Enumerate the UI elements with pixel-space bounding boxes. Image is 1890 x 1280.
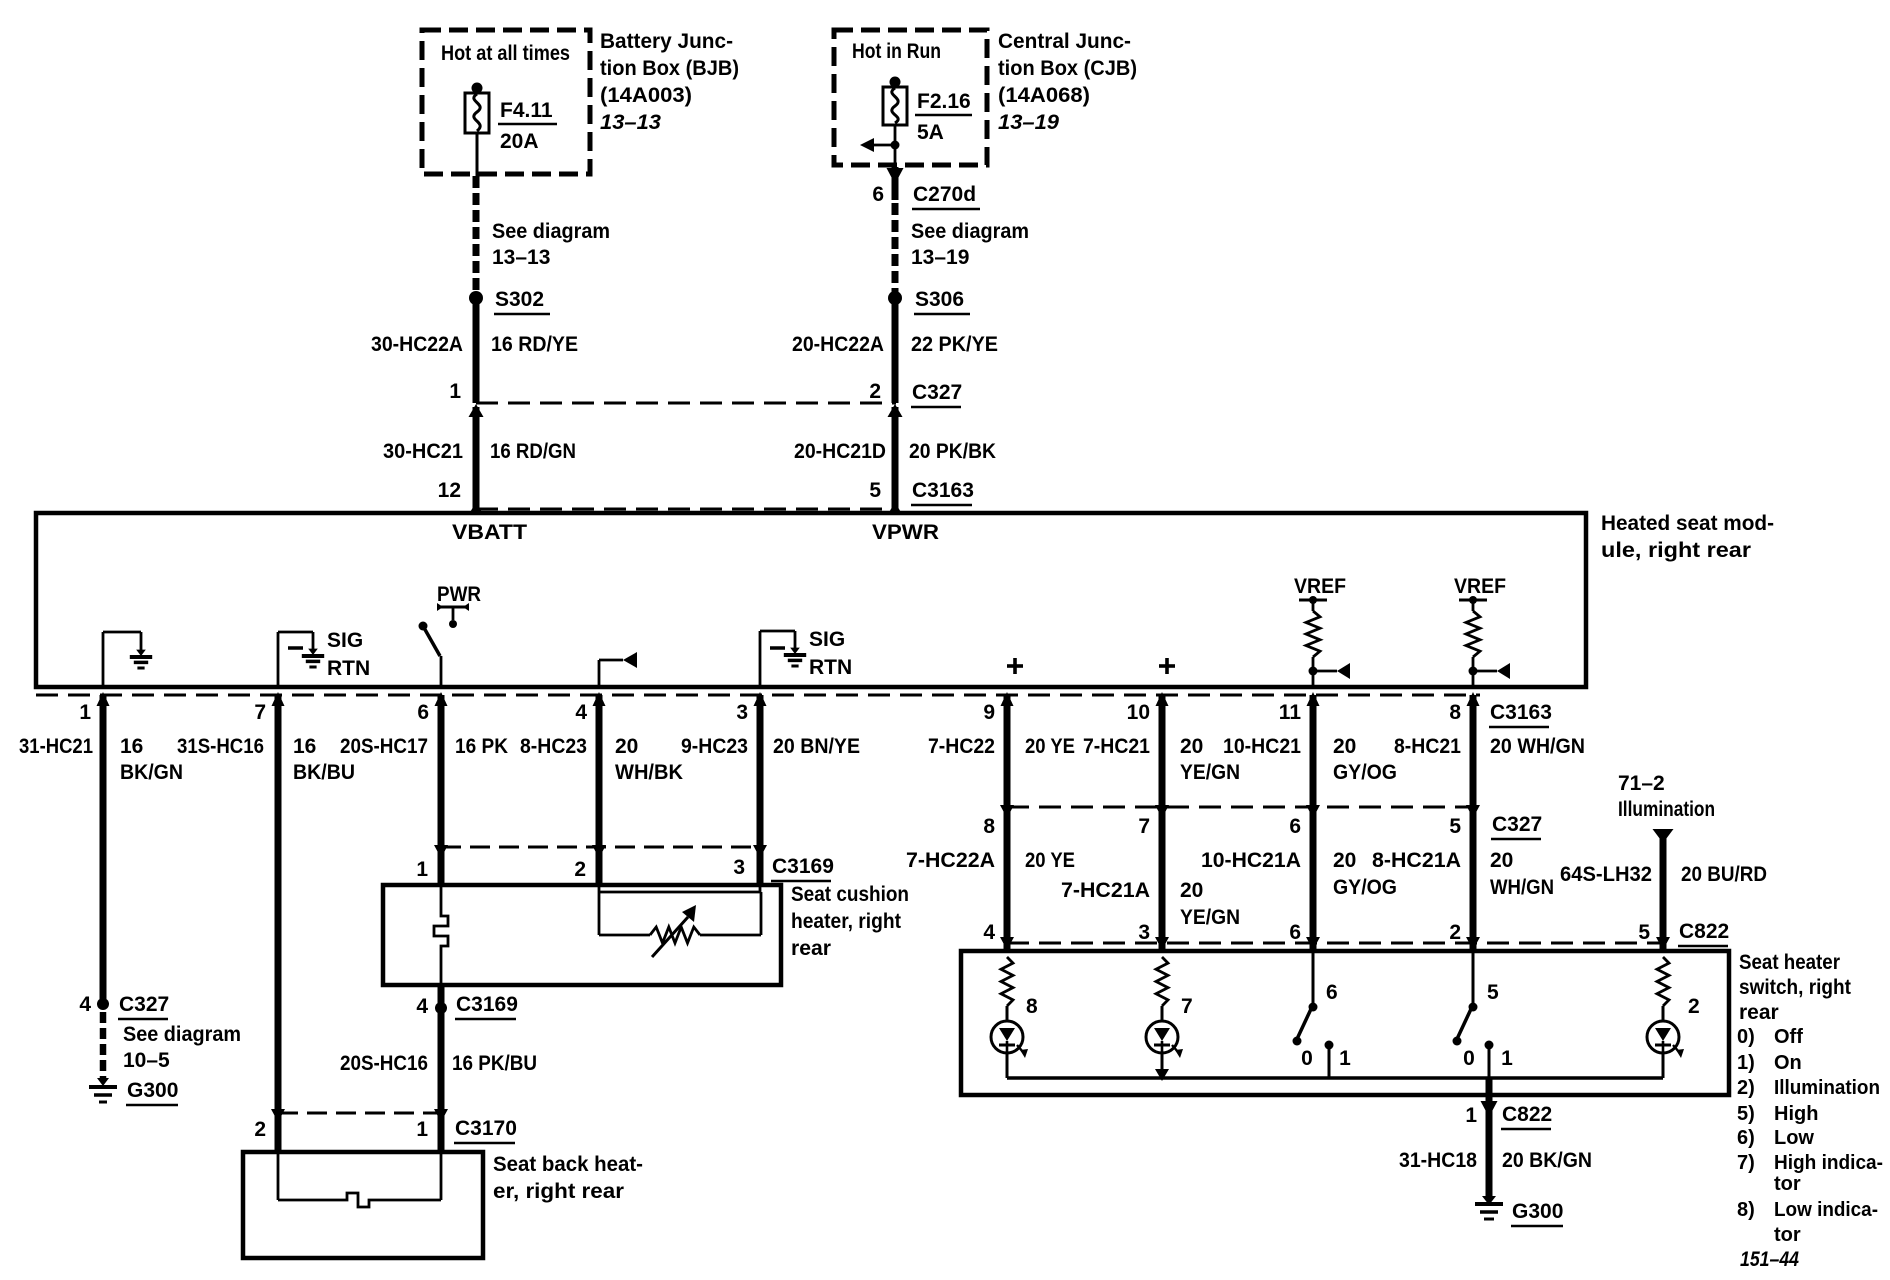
svg-text:8-HC23: 8-HC23 <box>520 735 587 758</box>
svg-text:Illumination: Illumination <box>1774 1077 1880 1099</box>
svg-text:8: 8 <box>1449 701 1461 724</box>
svg-text:tion Box (CJB): tion Box (CJB) <box>998 57 1137 80</box>
svg-text:16 PK: 16 PK <box>455 735 508 758</box>
svg-text:RTN: RTN <box>327 657 370 680</box>
svg-text:5A: 5A <box>917 121 944 144</box>
svg-text:WH/GN: WH/GN <box>1490 876 1554 899</box>
svg-text:0: 0 <box>1301 1047 1313 1070</box>
svg-text:1): 1) <box>1737 1052 1755 1074</box>
svg-text:5: 5 <box>1487 981 1499 1004</box>
svg-text:VREF: VREF <box>1294 575 1346 598</box>
svg-text:3: 3 <box>1138 921 1150 944</box>
svg-text:5: 5 <box>1449 815 1461 838</box>
svg-text:10-HC21A: 10-HC21A <box>1201 849 1301 872</box>
svg-text:7-HC22A: 7-HC22A <box>906 849 995 872</box>
svg-text:rear: rear <box>1739 1001 1779 1024</box>
svg-text:WH/BK: WH/BK <box>615 761 683 784</box>
svg-text:SIG: SIG <box>809 628 845 651</box>
svg-text:(14A003): (14A003) <box>600 84 692 107</box>
svg-text:16 RD/YE: 16 RD/YE <box>491 333 578 356</box>
svg-text:8: 8 <box>1026 995 1038 1018</box>
svg-text:11: 11 <box>1279 701 1302 724</box>
svg-text:20 WH/GN: 20 WH/GN <box>1490 735 1585 758</box>
svg-text:RTN: RTN <box>809 656 852 679</box>
svg-text:20 BK/GN: 20 BK/GN <box>1502 1149 1592 1172</box>
svg-text:heater, right: heater, right <box>791 910 901 933</box>
svg-text:6: 6 <box>1289 921 1301 944</box>
svg-text:16: 16 <box>293 735 316 758</box>
svg-text:20-HC21D: 20-HC21D <box>794 440 886 463</box>
svg-text:20 PK/BK: 20 PK/BK <box>909 440 996 463</box>
svg-text:VPWR: VPWR <box>872 521 939 544</box>
svg-text:10-HC21: 10-HC21 <box>1223 735 1301 758</box>
svg-text:13–19: 13–19 <box>911 246 969 269</box>
svg-text:High indica-: High indica- <box>1774 1152 1883 1174</box>
svg-text:22 PK/YE: 22 PK/YE <box>911 333 998 356</box>
svg-text:8-HC21A: 8-HC21A <box>1372 849 1461 872</box>
svg-text:Hot in Run: Hot in Run <box>852 40 941 63</box>
svg-text:2): 2) <box>1737 1077 1755 1099</box>
svg-text:2: 2 <box>1449 921 1461 944</box>
svg-text:F2.16: F2.16 <box>917 90 971 113</box>
svg-text:30-HC21: 30-HC21 <box>383 440 463 463</box>
svg-text:BK/GN: BK/GN <box>120 761 183 784</box>
svg-text:13–13: 13–13 <box>492 246 550 269</box>
svg-text:3: 3 <box>733 856 745 879</box>
svg-text:8: 8 <box>983 815 995 838</box>
svg-text:G300: G300 <box>127 1079 178 1102</box>
svg-text:9-HC23: 9-HC23 <box>681 735 748 758</box>
svg-text:8-HC21: 8-HC21 <box>1394 735 1461 758</box>
svg-text:2: 2 <box>254 1118 266 1141</box>
svg-text:1: 1 <box>1339 1047 1351 1070</box>
svg-text:13–19: 13–19 <box>998 111 1059 134</box>
svg-text:7-HC21A: 7-HC21A <box>1061 879 1150 902</box>
svg-text:6: 6 <box>417 701 429 724</box>
svg-text:6: 6 <box>1326 981 1338 1004</box>
svg-text:Low indica-: Low indica- <box>1774 1199 1878 1221</box>
svg-text:4: 4 <box>983 921 995 944</box>
svg-text:6): 6) <box>1737 1127 1755 1149</box>
svg-text:8): 8) <box>1737 1199 1755 1221</box>
svg-text:See diagram: See diagram <box>492 220 610 243</box>
svg-text:See diagram: See diagram <box>123 1023 241 1046</box>
svg-text:20 BN/YE: 20 BN/YE <box>773 735 860 758</box>
svg-text:(14A068): (14A068) <box>998 84 1090 107</box>
svg-text:13–13: 13–13 <box>600 111 661 134</box>
svg-text:20S-HC17: 20S-HC17 <box>340 735 428 758</box>
svg-text:0: 0 <box>1463 1047 1475 1070</box>
svg-text:31-HC18: 31-HC18 <box>1399 1149 1477 1172</box>
svg-text:1: 1 <box>416 1118 428 1141</box>
svg-text:20: 20 <box>1490 849 1513 872</box>
svg-text:1: 1 <box>79 701 91 724</box>
svg-text:Seat back heat-: Seat back heat- <box>493 1153 643 1176</box>
svg-text:C822: C822 <box>1502 1103 1552 1126</box>
svg-text:switch, right: switch, right <box>1739 976 1851 999</box>
svg-text:7: 7 <box>1138 815 1150 838</box>
svg-text:6: 6 <box>872 183 884 206</box>
svg-text:F4.11: F4.11 <box>500 99 553 122</box>
svg-text:20: 20 <box>1333 849 1356 872</box>
svg-text:4: 4 <box>79 993 91 1016</box>
svg-text:Low: Low <box>1774 1127 1814 1149</box>
svg-text:C3163: C3163 <box>1490 701 1552 724</box>
svg-text:20A: 20A <box>500 130 539 153</box>
svg-text:VREF: VREF <box>1454 575 1506 598</box>
svg-text:4: 4 <box>416 995 428 1018</box>
svg-text:4: 4 <box>575 701 587 724</box>
svg-text:BK/BU: BK/BU <box>293 761 355 784</box>
svg-text:See diagram: See diagram <box>911 220 1029 243</box>
svg-text:On: On <box>1774 1052 1802 1074</box>
svg-text:7-HC22: 7-HC22 <box>928 735 995 758</box>
svg-text:C3169: C3169 <box>772 855 834 878</box>
svg-text:71–2: 71–2 <box>1618 772 1665 795</box>
svg-text:7: 7 <box>254 701 266 724</box>
svg-text:10–5: 10–5 <box>123 1049 170 1072</box>
svg-text:Central Junc-: Central Junc- <box>998 30 1131 53</box>
svg-text:7): 7) <box>1737 1152 1755 1174</box>
svg-text:rear: rear <box>791 937 831 960</box>
svg-text:1: 1 <box>416 858 428 881</box>
svg-text:C822: C822 <box>1679 920 1729 943</box>
svg-text:C3169: C3169 <box>456 993 518 1016</box>
svg-text:PWR: PWR <box>437 583 481 606</box>
svg-text:YE/GN: YE/GN <box>1180 761 1240 784</box>
svg-text:20 BU/RD: 20 BU/RD <box>1681 863 1767 886</box>
svg-text:31-HC21: 31-HC21 <box>19 735 93 758</box>
svg-text:7-HC21: 7-HC21 <box>1083 735 1150 758</box>
svg-text:2: 2 <box>574 858 586 881</box>
svg-text:6: 6 <box>1289 815 1301 838</box>
svg-text:S302: S302 <box>495 288 544 311</box>
svg-text:tor: tor <box>1774 1224 1801 1246</box>
svg-text:5): 5) <box>1737 1103 1755 1125</box>
svg-text:Seat heater: Seat heater <box>1739 951 1840 974</box>
svg-text:C327: C327 <box>119 993 169 1016</box>
svg-text:S306: S306 <box>915 288 964 311</box>
svg-text:Seat cushion: Seat cushion <box>791 883 909 906</box>
svg-text:31S-HC16: 31S-HC16 <box>177 735 264 758</box>
svg-text:64S-LH32: 64S-LH32 <box>1560 863 1652 886</box>
svg-text:2: 2 <box>869 380 881 403</box>
svg-text:20-HC22A: 20-HC22A <box>792 333 884 356</box>
svg-text:20: 20 <box>1180 735 1203 758</box>
svg-text:16 RD/GN: 16 RD/GN <box>490 440 576 463</box>
svg-text:20 YE: 20 YE <box>1025 849 1075 872</box>
svg-text:5: 5 <box>1638 921 1650 944</box>
svg-text:20: 20 <box>615 735 638 758</box>
svg-text:12: 12 <box>438 479 461 502</box>
svg-text:GY/OG: GY/OG <box>1333 876 1397 899</box>
svg-text:High: High <box>1774 1103 1818 1125</box>
svg-text:20: 20 <box>1333 735 1356 758</box>
svg-text:9: 9 <box>983 701 995 724</box>
svg-text:10: 10 <box>1127 701 1150 724</box>
svg-text:20 YE: 20 YE <box>1025 735 1075 758</box>
svg-text:C327: C327 <box>1492 813 1542 836</box>
svg-text:0): 0) <box>1737 1026 1755 1048</box>
svg-text:C327: C327 <box>912 381 962 404</box>
svg-text:16 PK/BU: 16 PK/BU <box>452 1052 537 1075</box>
svg-text:GY/OG: GY/OG <box>1333 761 1397 784</box>
svg-text:VBATT: VBATT <box>452 521 527 544</box>
svg-text:Battery Junc-: Battery Junc- <box>600 30 733 53</box>
svg-text:7: 7 <box>1181 995 1193 1018</box>
svg-text:5: 5 <box>869 479 881 502</box>
svg-text:1: 1 <box>1465 1104 1477 1127</box>
svg-text:SIG: SIG <box>327 629 363 652</box>
svg-text:1: 1 <box>1501 1047 1513 1070</box>
svg-text:3: 3 <box>736 701 748 724</box>
svg-text:tion Box (BJB): tion Box (BJB) <box>600 57 739 80</box>
svg-text:2: 2 <box>1688 995 1700 1018</box>
svg-text:151–44: 151–44 <box>1740 1248 1799 1271</box>
svg-text:20: 20 <box>1180 879 1203 902</box>
svg-text:C270d: C270d <box>913 183 976 206</box>
svg-text:C3170: C3170 <box>455 1117 517 1140</box>
svg-text:16: 16 <box>120 735 143 758</box>
svg-text:ule, right rear: ule, right rear <box>1601 539 1751 562</box>
svg-text:tor: tor <box>1774 1173 1801 1195</box>
svg-text:30-HC22A: 30-HC22A <box>371 333 463 356</box>
svg-text:YE/GN: YE/GN <box>1180 906 1240 929</box>
svg-text:Hot at all times: Hot at all times <box>441 42 570 65</box>
svg-text:Heated seat mod-: Heated seat mod- <box>1601 512 1774 535</box>
svg-text:C3163: C3163 <box>912 479 974 502</box>
svg-text:20S-HC16: 20S-HC16 <box>340 1052 428 1075</box>
svg-text:Illumination: Illumination <box>1618 798 1715 821</box>
svg-text:G300: G300 <box>1512 1200 1563 1223</box>
svg-text:er, right rear: er, right rear <box>493 1180 624 1203</box>
svg-text:1: 1 <box>449 380 461 403</box>
svg-text:Off: Off <box>1774 1026 1803 1048</box>
